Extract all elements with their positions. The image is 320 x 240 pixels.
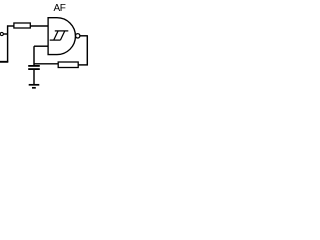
ground bar 1 bbox=[29, 84, 40, 86]
op-amp U1 schmitt NAND gate body bbox=[48, 18, 75, 55]
wire capacitor to ground bbox=[33, 70, 35, 84]
wire node vertical to capacitor bbox=[33, 46, 35, 65]
wire bottom to resistor R2 bbox=[78, 64, 88, 66]
hysteresis symbol bbox=[50, 31, 69, 40]
wire bottom-left exit bbox=[0, 61, 8, 63]
wire node to resistor R2 bbox=[34, 63, 58, 65]
output bubble bbox=[76, 34, 80, 38]
capacitor C1 top plate bbox=[28, 65, 40, 67]
wire output to right bus bbox=[80, 35, 88, 37]
resistor R2 bbox=[58, 62, 78, 68]
capacitor C1 bottom plate bbox=[28, 68, 40, 70]
wire terminal to junction bbox=[3, 33, 8, 35]
wire junction up to resistor row bbox=[7, 25, 14, 27]
wire vertical left bus bbox=[7, 25, 9, 62]
ground bar 2 bbox=[32, 87, 36, 89]
wire gate input B horizontal bbox=[34, 45, 48, 47]
resistor R1 bbox=[14, 23, 30, 28]
input terminal circle bbox=[0, 32, 3, 35]
svg-text:AF: AF bbox=[54, 3, 66, 14]
wire R1 to gate input A bbox=[30, 25, 48, 27]
wire right vertical bus bbox=[86, 36, 88, 66]
